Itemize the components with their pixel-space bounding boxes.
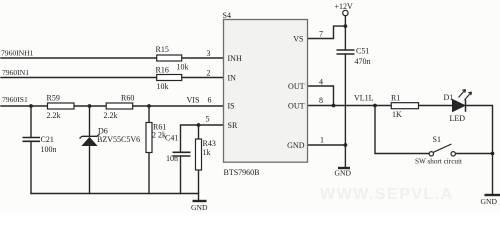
svg-text:1K: 1K [392, 110, 402, 119]
svg-text:GND: GND [287, 141, 305, 150]
svg-text:SR: SR [228, 121, 238, 130]
svg-text:R59: R59 [47, 94, 60, 103]
wire right edge down to GND [492, 154, 494, 195]
svg-text:5: 5 [206, 115, 210, 124]
svg-text:IN: IN [228, 74, 237, 83]
svg-text:OUT: OUT [288, 101, 305, 110]
resistor R15 [156, 45, 189, 72]
node switch/right edge [491, 152, 495, 156]
node +12V/VS [344, 24, 348, 28]
svg-text:SW short circuit: SW short circuit [415, 158, 462, 166]
resistor R61 [146, 123, 166, 153]
switch S1 [415, 135, 462, 166]
svg-text:7960INH1: 7960INH1 [1, 49, 34, 58]
IC S4 BTS7960B body [223, 11, 308, 177]
wire net 7960IS1 to pin IS [1, 105, 224, 107]
zener diode D6 BZV55C5V6 [80, 127, 141, 146]
wire net 7960INH1 to pin INH [1, 57, 224, 59]
node C21/IS [29, 104, 33, 108]
wire ground rail [31, 193, 199, 195]
resistor R60 [104, 94, 135, 121]
svg-text:2.2k: 2.2k [104, 111, 118, 120]
svg-text:D1: D1 [444, 93, 454, 102]
svg-text:C21: C21 [41, 135, 54, 144]
node R43/SR [197, 123, 201, 127]
power +12V [335, 2, 354, 16]
wire S1 branch from VL1L junction [375, 106, 429, 154]
svg-text:S1: S1 [433, 135, 441, 144]
svg-text:8: 8 [319, 96, 323, 105]
svg-text:R60: R60 [121, 94, 134, 103]
svg-text:C41: C41 [165, 134, 178, 143]
wire C21 bottom to ground rail [30, 142, 32, 194]
svg-text:GND: GND [191, 203, 208, 212]
LED D1 [444, 90, 472, 124]
wire R61 branch down [148, 106, 150, 123]
wire OUT pin4 with drop [307, 86, 334, 106]
svg-text:LED: LED [450, 114, 466, 123]
svg-text:R16: R16 [156, 66, 169, 75]
capacitor C41 [165, 134, 191, 164]
svg-text:INH: INH [228, 54, 242, 63]
wire C51 bottom down to GND symbol [344, 54, 346, 167]
wire GND pin1 [307, 144, 345, 146]
svg-text:2.2k: 2.2k [47, 111, 61, 120]
svg-text:3: 3 [207, 49, 211, 58]
svg-text:4: 4 [319, 78, 323, 87]
wire net 7960IN1 to pin IN [1, 77, 224, 79]
node GND1/C51 [344, 143, 348, 147]
node D6/IS [88, 104, 92, 108]
node OUT4/OUT8 [332, 104, 336, 108]
ground symbol center (C51 / pin1) [335, 168, 352, 178]
resistor R16 [156, 66, 182, 92]
svg-text:1k: 1k [203, 148, 211, 157]
node R61/IS [147, 104, 151, 108]
wire D6 bottom to rail [89, 146, 91, 194]
svg-text:R15: R15 [156, 45, 169, 54]
svg-text:OUT: OUT [288, 82, 305, 91]
wire switch right to right edge [456, 153, 493, 155]
svg-text:C51: C51 [356, 47, 369, 56]
svg-text:470n: 470n [355, 57, 371, 66]
wire LED cathode to right edge corner down [466, 106, 493, 154]
resistor R43 [196, 139, 216, 170]
wire D6 branch down [89, 106, 91, 136]
wire SR pin to C41 corner [181, 125, 225, 152]
resistor R1 [391, 94, 419, 120]
svg-text:IS: IS [228, 102, 235, 111]
svg-text:BTS7960B: BTS7960B [224, 168, 260, 177]
wire R43 bottom lead to gnd [198, 170, 200, 201]
wire OUT pin8 to LED anode [307, 105, 452, 107]
svg-text:100n: 100n [41, 145, 57, 154]
svg-text:VL1L: VL1L [354, 94, 374, 103]
svg-text:BZV55C5V6: BZV55C5V6 [97, 135, 140, 144]
wire C41 bottom to rail [180, 156, 182, 194]
svg-text:7960IS1: 7960IS1 [2, 95, 28, 104]
svg-text:S4: S4 [223, 11, 231, 20]
svg-text:10n: 10n [166, 154, 178, 163]
wire +12V stem down to C51 [344, 16, 346, 50]
wire R43 top lead [198, 125, 200, 139]
svg-text:10k: 10k [177, 63, 189, 72]
wire C21 branch down [30, 106, 32, 137]
svg-text:2 2k: 2 2k [152, 131, 166, 140]
svg-text:R1: R1 [391, 94, 400, 103]
ground symbol bottom right [481, 195, 500, 206]
svg-text:VIS: VIS [187, 96, 200, 105]
svg-text:R43: R43 [203, 139, 216, 148]
svg-text:2: 2 [207, 69, 211, 78]
svg-text:1: 1 [320, 136, 324, 145]
svg-text:6: 6 [208, 96, 212, 105]
resistor R59 [47, 94, 75, 121]
svg-text:WWW.SEPVL.A: WWW.SEPVL.A [320, 186, 454, 203]
svg-text:+12V: +12V [335, 2, 354, 11]
svg-text:7960IN1: 7960IN1 [2, 68, 29, 77]
wire VS pin to +12V stem [307, 26, 345, 38]
ground symbol under R43 [191, 201, 208, 212]
node VL1L/S1 [373, 104, 377, 108]
capacitor C21 [23, 135, 57, 154]
svg-text:10k: 10k [157, 82, 169, 91]
wire R61 bottom to rail [148, 153, 150, 194]
svg-text:7: 7 [319, 30, 323, 39]
capacitor C51 [337, 47, 371, 67]
svg-text:GND: GND [335, 169, 352, 178]
svg-text:VS: VS [293, 35, 303, 44]
svg-text:GND: GND [481, 197, 498, 206]
